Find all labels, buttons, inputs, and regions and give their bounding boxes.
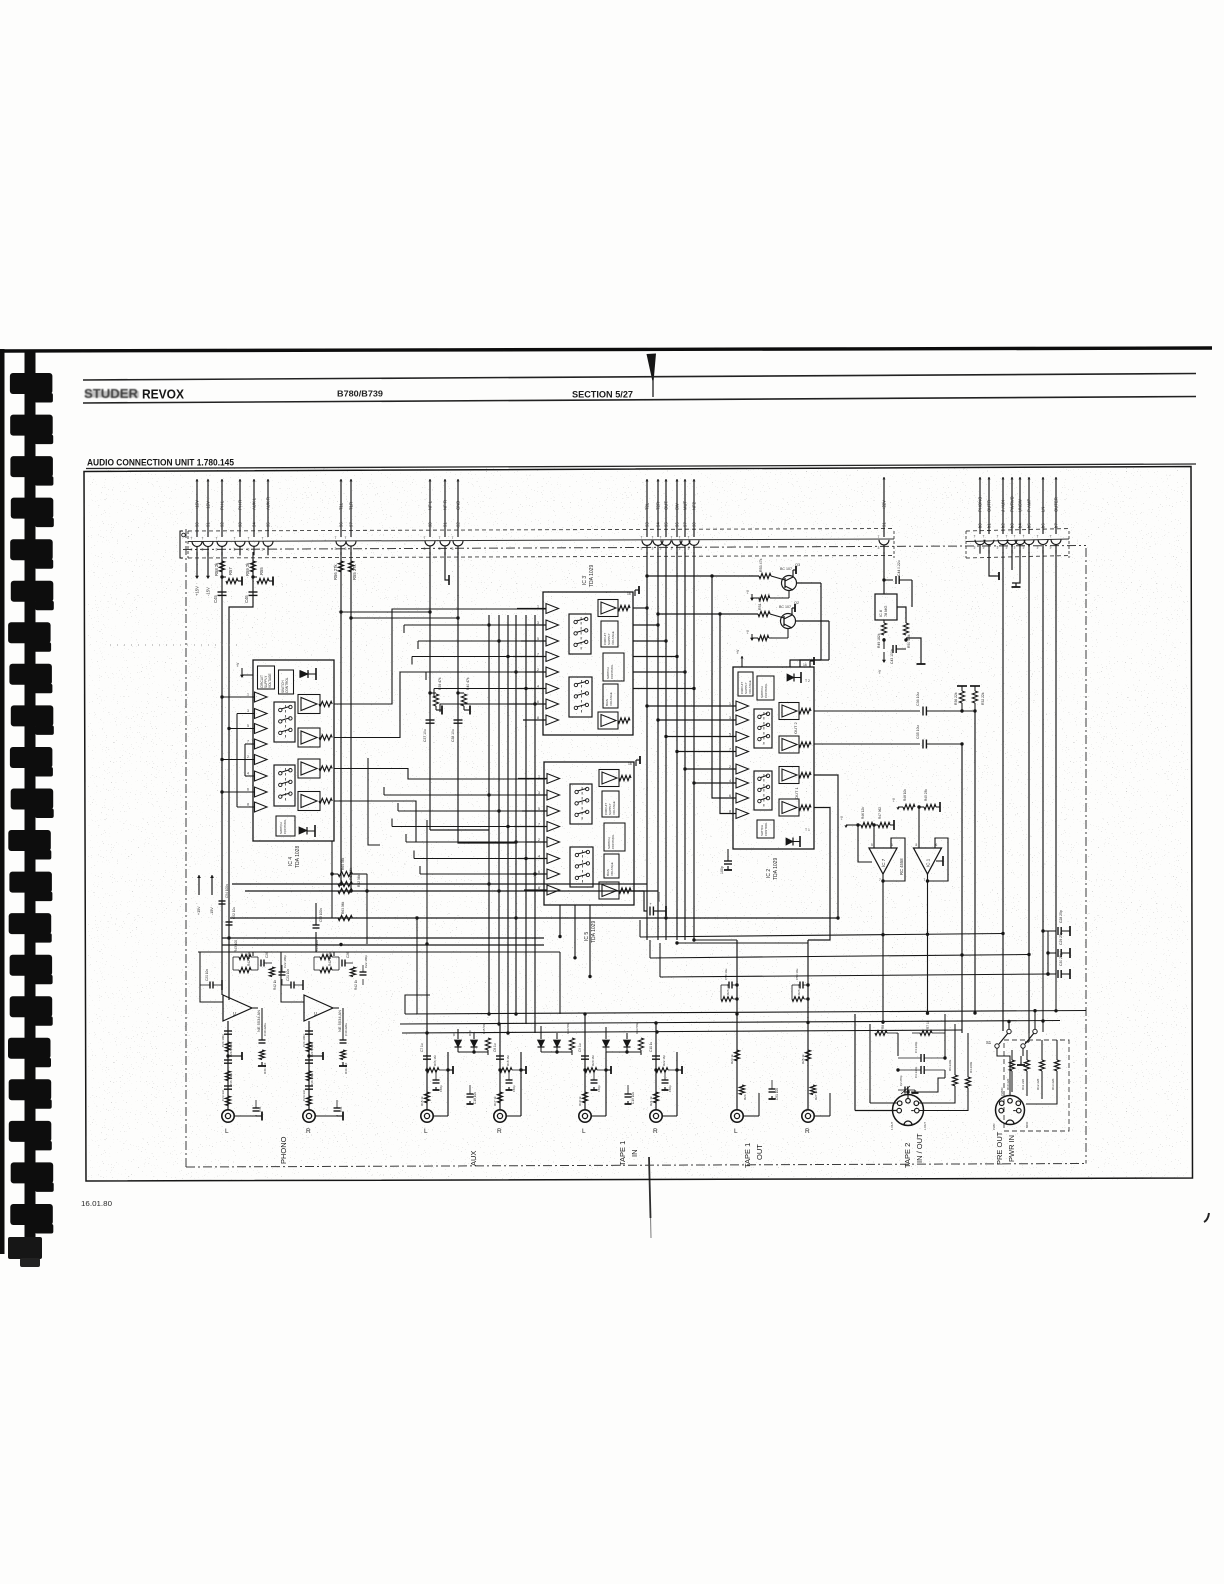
IC8 ground [906,638,921,660]
resistor R46 [846,824,849,826]
DIN connector TAPE2 [893,1095,924,1126]
wire IC2 out1 right [814,743,920,745]
IC4 input amplifier triangles [255,692,268,702]
capacitor C19 [627,1090,629,1094]
op-amp IC3 TDA1029 [543,592,633,735]
wire rail x367 [366,874,368,944]
binding comb teeth [10,373,53,394]
IC4 top diode [300,671,308,678]
wire bus x458 [458,552,516,843]
capacitor C43 [883,638,885,649]
wire left-step to IC5 [368,758,380,845]
resistor R33 [638,1038,643,1050]
capacitor C46 [249,591,258,593]
preout dashed box [1004,1040,1069,1131]
capacitor C52b [226,921,233,923]
wire IC7 left input [858,825,872,862]
wire bundle right of IC3 [646,552,648,940]
wire rail x1003 [1002,552,1004,1031]
resistor R62 [338,888,352,893]
wire S1b rail links [1041,1040,1043,1046]
op-amp IC4 TDA1028 outline [253,660,334,841]
connector wires above (right group) [979,477,981,534]
diode row joiner [458,1051,488,1053]
wire aux feed elbows [457,1029,459,1033]
resistor R40 [456,691,459,694]
wire IC3 outputs to right bundle [633,607,647,609]
capacitor C28 [1043,930,1056,932]
wire bus x430 [429,552,431,830]
resistor R39 [428,691,431,694]
svg-text:REVOX: REVOX [142,387,184,402]
wire x962 down [961,744,963,1033]
header rule bottom [83,397,1196,404]
wire IC2 out2 right [814,710,920,712]
wire din t2 left [854,1095,856,1111]
wire bundle elbows [488,1010,490,1014]
resistor R47 [874,824,878,826]
board border bottom [186,1164,1086,1168]
wire bus y918 [230,917,838,919]
IC4 switch control box bottom [276,816,295,836]
AUX L input network [426,1014,428,1110]
svg-text:AUDIO CONNECTION UNIT 1.780.14: AUDIO CONNECTION UNIT 1.780.145 [87,458,235,469]
capacitor C45 [218,591,227,593]
connector contacts [192,542,202,547]
wire bus y938 [222,937,544,939]
IC2 +V arrow [741,656,743,667]
pen tick bottom right [1204,1213,1209,1222]
connector centre dash-dot rail [183,546,1086,550]
resistor R54 [752,597,759,599]
resistor R61 [338,881,352,886]
svg-text:16.01.80: 16.01.80 [81,1199,112,1208]
wire R39 node link [341,611,430,613]
IC2 cap 100p [727,849,729,861]
wire tape1out feeds [694,939,737,941]
logo STUDER (smudged) [84,387,139,401]
switch S1b [1021,1044,1025,1048]
resistor R50 [897,607,906,623]
IC7 feedback loop [883,838,905,881]
capacitor C18 [469,1090,471,1094]
TAPE1 OUT R network [807,940,809,1110]
IC4 circuit supply voltage box [258,666,275,689]
wire tape1out feed R [677,942,808,944]
wire IC1b input vert [918,807,920,848]
diode D9 [457,1033,459,1039]
DIN connector PREOUT [996,1096,1025,1125]
wire rail x1029 [1028,552,1030,1033]
diode D5 [540,1033,542,1039]
wire IC4 out2 to IC3 [334,672,546,738]
svg-text:SECTION 5/27: SECTION 5/27 [572,390,633,400]
wire IC7 input vert [873,825,875,848]
diode D6 [626,1033,628,1039]
resistor R35 [485,1038,490,1050]
supply -15V entry [207,552,209,576]
connector wires above (left groups) [196,479,198,537]
wire stub x445 [445,552,449,580]
wire y952 link [198,951,560,953]
wire phono supply branch [198,875,200,895]
wire S1 feeds [1002,1011,1004,1031]
wire bus y884 [232,883,647,885]
wire bus y1024 [400,1021,1060,1025]
IC4 switch box 2 [274,765,295,806]
capacitor C35 [922,740,924,749]
op-amp IC7 [869,848,897,874]
capacitor C38 [454,719,463,721]
transistor Q3 [782,576,797,591]
right strip stub grounds [989,550,996,576]
op-amp IC1b [914,848,942,874]
IC8 +V out [883,652,885,660]
resistor R60 [338,871,352,876]
IC1b pin ground [936,860,943,862]
op-amp IC5 TDA1029 [544,762,634,905]
IC4 switch control box top [279,670,294,694]
wire bus y945 [222,944,544,946]
capacitor C54 [219,900,226,902]
wire IC5 pin drops [559,905,561,937]
wire phono rails extend [221,955,223,995]
wire elbow x430 [430,829,489,831]
wire bus y937 [646,908,648,936]
wire rail x1056 [1055,550,1057,974]
IC4 bottom diode [299,827,307,834]
AUX R input network [499,1024,501,1110]
junction [220,575,223,578]
switch S1a [995,1044,999,1048]
diode D10 [473,1033,475,1039]
resistor R51 [658,613,758,615]
resistor R27 [810,1085,815,1095]
capacitor C30 [1048,973,1056,975]
title underline [86,464,1196,469]
TAPE1 OUT L network [736,940,738,1110]
wire +22V rail [883,552,885,594]
IC4 output buffers with series resistors [301,698,317,711]
page top scan edge [0,348,1212,351]
header rule top [83,374,1196,381]
wire IC4 out3 to IC5 [334,769,546,780]
ground R55b [269,580,273,582]
wire IC4 out1 to IC3 [334,609,546,704]
capacitor C36 [922,707,924,716]
supply +15V entry [196,552,198,576]
TAPE1 R input network [655,1023,657,1110]
TAPE2 RC network [854,1014,856,1095]
page left scan edge [0,349,5,1254]
wire -rail x253 [229,552,253,952]
resistor R34 [569,1038,574,1050]
wire bus y891 [245,890,658,892]
wire IC4 out4 to IC5 [334,801,546,842]
junction [251,575,254,578]
resistor R36 to gnd [961,703,963,711]
wire Q to IC2 [689,576,691,614]
wire bus y1014 [405,1011,1086,1015]
wire bus y977 [660,974,1048,977]
wire bus x341 [340,552,342,884]
capacitor C29 [1048,952,1056,954]
wire rail x1043 [1042,550,1044,931]
capacitor C53 [313,924,320,926]
ground R57 [238,580,242,582]
transistor Q2 [781,614,796,629]
resistor R56 [338,561,343,572]
wire rail x332 [331,841,333,918]
wire bus y1033 [402,1030,962,1033]
resistor R49 [883,620,885,623]
resistor R45 [919,806,924,808]
wire rail x1048 [1047,931,1049,974]
PHONO L input stage IC1 [200,952,253,1002]
IC4 switch box 1 [274,702,295,742]
TAPE1 L input network [584,1014,586,1110]
IC1b feedback loop [928,838,949,881]
diode row joiner 2 [541,1051,572,1053]
IC4 +V arrow [242,674,253,676]
wire x417 down [416,918,418,1014]
wire right bundle to IC2 inputs [647,705,736,707]
connector strip bracket [180,531,183,558]
resistor R24 [739,1085,744,1095]
wire bundle centre-left [488,615,490,1010]
PHONO R input stage IC6 [281,952,334,1002]
preout resistor stubs [1011,1050,1013,1060]
svg-text:B780/B739: B780/B739 [337,389,383,399]
resistor R57 [222,576,226,578]
capacitor C51 [771,1085,773,1089]
resistor R58 [219,561,224,572]
board border left [185,529,187,1167]
resistor R32 to gnd [974,703,976,711]
wire bus y958 [650,955,1029,959]
resistor R53 [647,575,759,577]
diode D7 [556,1033,558,1039]
IC4 input wires [222,696,255,698]
wire bus y995 elbow [405,995,430,1014]
crease mark top [647,354,657,382]
binding bottom smudge [8,1237,42,1259]
resistor R63 [338,915,352,920]
crease mark bottom [649,1157,651,1218]
diode row joiner 3 [606,1051,641,1053]
connector strip J1 outline [188,529,894,532]
wire IC7 out down [882,881,884,1024]
wire stubs bundle to IC3/IC5 [404,624,543,626]
wire IC2 out4 down [808,808,830,941]
resistor R48 [898,806,901,808]
wire +rail x222 [221,552,223,955]
wire din t2 stubs [907,1092,909,1099]
wire x975 down [974,711,976,1014]
capacitor C44 [884,579,893,581]
wire x427 down [426,820,428,1015]
voltage regulator IC8 78MG [875,594,897,620]
resistor R52 [752,637,758,639]
wire IC1b out down [927,881,929,1014]
wire R40 node link [351,617,458,619]
capacitor C20 1000u [631,891,647,911]
board border right [1085,548,1087,1164]
preout resistors R10-R13 [1009,1060,1014,1071]
resistor R55b [253,576,257,578]
capacitor C37 [426,719,435,721]
wire IC2 out3 down [814,775,838,918]
diode D4 [605,1033,607,1039]
resistor R59 [250,561,255,572]
preout ground [1020,1056,1022,1062]
schematic frame [84,467,1193,1182]
wire bus x351 [350,552,352,891]
resistor R55 [348,561,353,572]
binding spine [25,352,36,1258]
op-amp IC2 TDA1029 [733,667,814,849]
